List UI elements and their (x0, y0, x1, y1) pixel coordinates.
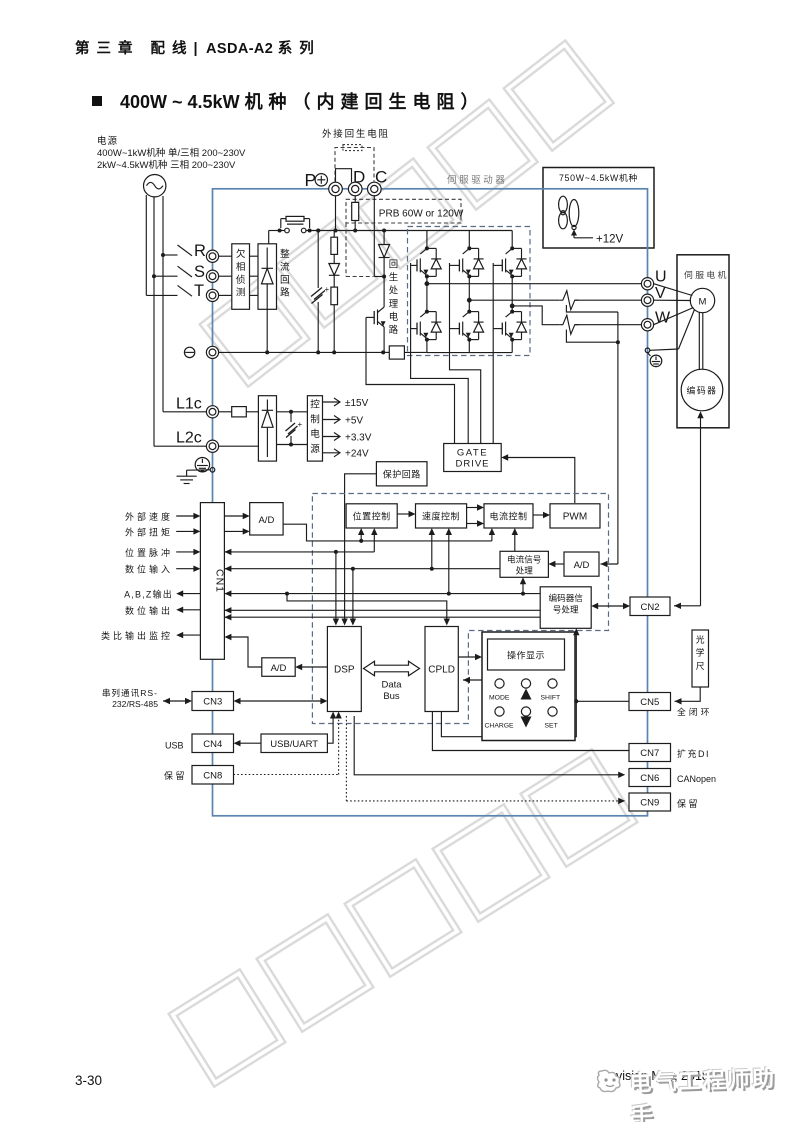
encoder feedback wire to CN2 (700, 415, 702, 606)
svg-text:PRB 60W or 120W: PRB 60W or 120W (379, 209, 464, 220)
arrow current-signal to current-control (514, 533, 516, 552)
wire protection to DSP (345, 474, 377, 621)
wires CN1 to A/D (224, 515, 245, 517)
wire panel to CN5 (575, 700, 629, 702)
current control box 电流控制 (484, 504, 533, 528)
svg-text:CN5: CN5 (640, 697, 659, 708)
display box 操作显示 (488, 639, 565, 670)
svg-text:相: 相 (236, 261, 246, 273)
svg-text:SHIFT: SHIFT (541, 695, 561, 702)
soft-charge relay and resistor (268, 231, 270, 244)
CN8 box (192, 766, 234, 785)
terminal L1c (206, 406, 218, 418)
fuse F1 (219, 411, 232, 413)
svg-text:+: + (325, 285, 330, 294)
diode inside (266, 400, 268, 411)
regen gate wire to gate drive (366, 317, 455, 443)
control logic dashed box (312, 494, 608, 724)
svg-text:源: 源 (310, 444, 320, 455)
svg-text:T: T (194, 282, 204, 300)
output +5V (323, 419, 341, 421)
CN4 box (192, 734, 234, 753)
svg-text:伺服电机: 伺服电机 (684, 269, 729, 280)
svg-text:编码器: 编码器 (687, 385, 718, 396)
dotted wire CN8 to DSP (234, 774, 339, 776)
svg-text:CN3: CN3 (203, 697, 222, 708)
svg-text:学: 学 (696, 647, 705, 658)
svg-text:位置脉冲: 位置脉冲 (125, 547, 173, 558)
wire panel to CPLD (463, 679, 482, 681)
negative bus wire (219, 351, 268, 353)
svg-text:号处理: 号处理 (553, 604, 579, 615)
second arrow into current control (491, 533, 493, 541)
svg-text:+: + (298, 420, 303, 429)
double arrow label to CN3 (163, 700, 188, 702)
svg-text:400W~1kW机种 单/三相 200~230V: 400W~1kW机种 单/三相 200~230V (97, 147, 246, 159)
svg-text:光: 光 (696, 634, 705, 645)
USB/UART box (261, 734, 327, 753)
svg-text:处理: 处理 (516, 565, 534, 576)
svg-text:750W~4.5kW机种: 750W~4.5kW机种 (559, 172, 638, 183)
svg-text:232/RS-485: 232/RS-485 (112, 699, 158, 709)
svg-text:整: 整 (280, 248, 290, 260)
wire +12V to fan (571, 230, 577, 236)
bridge top rail right part (427, 230, 512, 232)
arrow current to PWM (533, 514, 546, 516)
position control box 位置控制 (346, 504, 397, 528)
ground symbol PE (648, 353, 651, 356)
svg-text:S: S (194, 263, 205, 281)
svg-text:保留: 保留 (677, 798, 700, 809)
svg-text:P: P (305, 170, 317, 190)
A/D box analog input (250, 503, 283, 535)
IGBT top Q3 (511, 231, 513, 249)
regen transistor Q-regen (383, 277, 385, 308)
svg-text:GATE: GATE (457, 448, 488, 459)
fan icon (559, 196, 568, 213)
resistor PRB (354, 195, 356, 202)
wire to DSP v1 (335, 552, 337, 621)
gate drive box GATE DRIVE (444, 444, 502, 472)
speed control box 速度控制 (416, 504, 467, 528)
svg-text:DSP: DSP (334, 665, 355, 676)
wire A/D monitor to CN1 (229, 637, 262, 667)
svg-text:+5V: +5V (345, 415, 363, 426)
wire source to R (162, 196, 164, 255)
svg-text:欠: 欠 (236, 248, 246, 260)
current signal box 电流信号处理 (500, 551, 548, 577)
control rectifier box (258, 396, 276, 461)
svg-text:电: 电 (389, 311, 398, 322)
control link capacitor (290, 412, 292, 422)
svg-text:CN1: CN1 (214, 569, 226, 593)
CN1 connector box (200, 503, 224, 660)
svg-text:电: 电 (310, 428, 320, 440)
rectifier box 整流回路 (258, 244, 277, 309)
servo motor box 伺服电机 (677, 255, 729, 428)
phase W wire with current sensor (512, 306, 559, 325)
output +-15V (323, 401, 341, 403)
AC source G1 (144, 175, 166, 197)
IGBT bottom Q6 (511, 306, 513, 312)
bleeder resistor R-bleed (333, 231, 335, 238)
svg-text:DRIVE: DRIVE (455, 459, 489, 470)
svg-text:尺: 尺 (696, 661, 705, 671)
svg-text:2kW~4.5kW机种 三相 200~230V: 2kW~4.5kW机种 三相 200~230V (97, 159, 236, 171)
DC+ bus wire (310, 230, 336, 232)
svg-text:Data: Data (381, 680, 402, 691)
resistor R-bleed2 (331, 287, 338, 305)
svg-text:CANopen: CANopen (677, 774, 716, 784)
regen diode (383, 231, 385, 245)
motor to encoder shaft (698, 313, 700, 370)
svg-text:位置控制: 位置控制 (353, 511, 391, 522)
bridge bottom rail (427, 352, 512, 354)
svg-text:保留: 保留 (164, 770, 187, 781)
A/D current box (564, 552, 599, 576)
operator panel box (482, 632, 575, 741)
svg-text:CN8: CN8 (203, 771, 222, 782)
DC bus capacitor C-bus (317, 231, 319, 289)
CN7 box (629, 744, 671, 762)
encoder signal box 编码器信号处理 (540, 587, 591, 629)
svg-text:路: 路 (389, 324, 399, 335)
dotted wire DSP to CN9 (345, 716, 347, 801)
svg-text:控: 控 (310, 399, 320, 411)
svg-text:流: 流 (280, 261, 290, 273)
phase U wire (427, 283, 641, 285)
chassis ground of drive (210, 468, 215, 473)
terminal R (206, 250, 218, 262)
svg-text:+24V: +24V (345, 449, 369, 460)
svg-text:电流控制: 电流控制 (489, 511, 527, 522)
svg-text:±15V: ±15V (345, 398, 369, 409)
wires R S T to boxes (219, 255, 232, 257)
wire junction up to encoder signal box (575, 633, 577, 701)
wires to control power box (277, 411, 308, 413)
svg-text:A/D: A/D (574, 560, 590, 571)
panel buttons row1 (495, 679, 504, 688)
motor circle M (690, 288, 714, 312)
motor ground pigtail (645, 348, 650, 353)
wire CPLD to CN5 junction (441, 701, 576, 736)
wire source to L1c (162, 255, 164, 412)
svg-text:USB/UART: USB/UART (270, 739, 318, 750)
wire DSP to CN6 (354, 716, 620, 775)
CN5 box (629, 693, 671, 711)
svg-text:数位输出: 数位输出 (125, 605, 173, 616)
terminal P (329, 182, 343, 196)
wire P down to bus (335, 195, 337, 230)
IGBT bottom Q4 (426, 284, 428, 312)
wire L2c to control rectifier (219, 445, 259, 447)
current sensor tap V (566, 305, 618, 312)
phase node V (468, 276, 470, 300)
jumper P-D (336, 169, 352, 183)
svg-text:测: 测 (236, 288, 246, 299)
IGBT top Q1 (426, 231, 428, 249)
terminal minus bus (184, 347, 194, 357)
terminal T (206, 289, 218, 301)
servo drive enclosure (blue) (213, 189, 648, 816)
svg-text:L2c: L2c (176, 430, 202, 447)
arrow into speed control 2 (448, 533, 450, 594)
Data Bus double arrow (364, 661, 420, 676)
output +3.3V (323, 436, 341, 438)
double arrow CN3 to DSP (237, 700, 323, 702)
panel buttons row2 (495, 707, 504, 716)
switch R (178, 245, 193, 256)
bus 数位输出 to encoder signal box (224, 609, 540, 611)
wire to CPLD top (287, 594, 447, 621)
terminal C (368, 182, 382, 196)
svg-text:保护回路: 保护回路 (383, 469, 421, 480)
bus digital io 2 (224, 616, 540, 618)
svg-text:处: 处 (389, 285, 399, 296)
svg-text:+3.3V: +3.3V (345, 432, 372, 443)
terminal V (641, 294, 653, 306)
svg-text:编码器信: 编码器信 (549, 592, 584, 603)
wire source to L2c (153, 276, 155, 446)
svg-text:CN9: CN9 (640, 798, 659, 809)
DSP box (327, 627, 361, 712)
svg-text:回: 回 (389, 259, 398, 270)
switch T (178, 285, 193, 296)
A/D monitor box (262, 658, 295, 677)
wire PWM to GATE DRIVE (505, 458, 575, 504)
svg-text:A/D: A/D (271, 663, 287, 674)
PRB resistor dashed box (346, 199, 461, 223)
svg-text:伺服驱动器: 伺服驱动器 (447, 174, 508, 186)
svg-text:USB: USB (165, 741, 184, 751)
svg-text:CN7: CN7 (640, 748, 659, 759)
svg-text:操作显示: 操作显示 (507, 650, 545, 661)
arrow into position control 1 (360, 533, 362, 541)
CN9 box (629, 793, 671, 811)
svg-text:制: 制 (310, 413, 320, 425)
svg-text:外接回生电阻: 外接回生电阻 (322, 128, 390, 140)
optical scale box 光学尺 (692, 630, 709, 687)
arrows speed to current (467, 507, 480, 509)
wire DSP to A/D monitor (300, 666, 327, 668)
phase loss detect box 欠相侦测 (232, 244, 250, 309)
output +24V (323, 452, 341, 454)
svg-text:外部速度: 外部速度 (125, 511, 173, 522)
encoder circle 编码器 (681, 369, 723, 411)
svg-text:+12V: +12V (596, 234, 624, 246)
wire source to S (153, 197, 155, 277)
terminal W (641, 319, 653, 331)
terminal D (348, 182, 362, 196)
svg-text:回: 回 (280, 275, 290, 286)
current feedback wire to A/D (617, 312, 619, 564)
phase V wire with current sensor (469, 299, 559, 301)
arrow USB/UART to CN4 (238, 742, 261, 744)
svg-text:侦: 侦 (236, 275, 246, 286)
wire USB/UART to DSP (327, 716, 333, 743)
bus 数位输入 to current signal box (224, 568, 500, 570)
svg-text:MODE: MODE (489, 695, 510, 702)
IGBT bridge dashed box (408, 227, 531, 356)
fan option box 750W~4.5kW (543, 168, 654, 249)
svg-text:电源: 电源 (97, 135, 118, 147)
rectifier negative down wire (266, 306, 268, 353)
svg-text:生: 生 (389, 272, 398, 283)
svg-text:A/D: A/D (258, 515, 274, 526)
svg-text:CN6: CN6 (640, 773, 659, 784)
PWM box (550, 504, 600, 528)
wire C down to regen (373, 195, 375, 276)
svg-text:SET: SET (545, 723, 558, 730)
svg-text:CN2: CN2 (640, 602, 659, 613)
svg-text:全闭环: 全闭环 (677, 706, 712, 717)
svg-text:A,B,Z输出: A,B,Z输出 (124, 589, 173, 600)
svg-text:外部扭矩: 外部扭矩 (125, 527, 173, 538)
terminal U (641, 278, 653, 290)
diode D-bleed (329, 264, 340, 276)
svg-text:Bus: Bus (383, 691, 400, 702)
switch S (178, 266, 193, 277)
svg-text:扩充DI: 扩充DI (677, 748, 710, 759)
svg-text:L1c: L1c (176, 396, 202, 413)
external resistor dashed box (335, 148, 374, 182)
svg-text:R: R (194, 242, 206, 260)
current sense resistor box on negative bus (389, 346, 404, 359)
CN3 box (192, 692, 234, 711)
diode inside rectifier (266, 248, 268, 269)
bus 位置脉冲 to position control (224, 551, 374, 553)
svg-text:CN4: CN4 (203, 739, 222, 750)
svg-text:电流信号: 电流信号 (507, 554, 541, 565)
phase node W (511, 276, 513, 306)
svg-text:PWM: PWM (563, 512, 587, 523)
terminal S (206, 270, 218, 282)
wire CPLD to CN7 (432, 712, 629, 751)
CN2 box (630, 597, 670, 616)
arrow A/D to current-signal (553, 563, 564, 565)
svg-text:串列通讯RS-: 串列通讯RS- (102, 687, 158, 698)
svg-text:类比输出监控: 类比输出监控 (101, 630, 173, 641)
svg-text:理: 理 (389, 298, 399, 309)
wire A/D to position control bus (283, 524, 492, 541)
svg-text:CHARGE: CHARGE (485, 723, 515, 730)
IGBT top Q2 (468, 231, 470, 249)
svg-text:路: 路 (280, 287, 290, 299)
arrow CPLD to panel (458, 656, 477, 658)
CPLD box (425, 627, 458, 712)
arrow position to speed (397, 513, 411, 515)
wire to DSP v3 (352, 569, 354, 621)
arrow into current signal box (522, 582, 524, 594)
double arrow encoder-signal to CN2 (596, 605, 626, 607)
terminal L2c (206, 440, 218, 452)
CN6 box (629, 769, 671, 787)
wire source to T (145, 195, 147, 295)
phase node U (426, 276, 428, 283)
bus ABZ to encoder signal box (224, 593, 540, 595)
svg-text:CPLD: CPLD (428, 665, 455, 676)
arrow into speed control 1 (431, 533, 433, 569)
control power box 控制电源 (307, 396, 322, 461)
gate wire 4 (492, 263, 494, 444)
wire optical scale to CN5 (675, 687, 701, 701)
svg-text:速度控制: 速度控制 (422, 511, 460, 522)
gate bus wires to GATE DRIVE (411, 263, 469, 444)
protection box 保护回路 (376, 462, 427, 486)
svg-text:U: U (655, 269, 667, 286)
svg-text:数位输入: 数位输入 (125, 564, 173, 575)
IGBT bottom Q5 (468, 300, 470, 311)
wires U V W to motor (654, 284, 693, 296)
current sensor tap W (566, 330, 618, 343)
svg-text:M: M (699, 297, 707, 308)
